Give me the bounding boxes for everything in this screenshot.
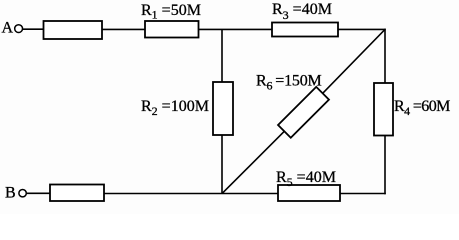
wire diagonal upper (R6 to top-right corner) [323, 29, 385, 93]
svg-text:B: B [5, 185, 16, 202]
terminal B [5, 185, 26, 202]
svg-text:A: A [2, 20, 14, 37]
svg-text:R1 =50M: R1 =50M [141, 2, 201, 22]
wire R4 down to bottom wire [384, 136, 386, 195]
svg-text:R4 =60M: R4 =60M [394, 98, 450, 118]
resistor R3 [272, 23, 338, 37]
resistor R4 [374, 83, 393, 136]
wire B to bottom-left resistor [27, 192, 50, 194]
wire top-right corner down to R4 [384, 29, 386, 83]
resistor R5 [278, 185, 340, 201]
terminal A [2, 20, 23, 37]
wire to R5 (through bottom junction) [104, 193, 278, 195]
wire top junction down to R2 [221, 29, 223, 82]
svg-text:R2 =100M: R2 =100M [141, 98, 209, 118]
wire R1 to R3 (through top junction) [199, 28, 273, 30]
wire R3 to top-right corner [338, 28, 386, 30]
wire R5 to bottom-right corner [340, 193, 386, 195]
resistor R1 [145, 21, 199, 38]
resistor R6 (diagonal) [278, 87, 329, 138]
wire R2 down to bottom junction [221, 135, 223, 194]
resistor (unlabeled, bottom-left) [50, 185, 104, 202]
resistor (unlabeled, top-left) [44, 21, 103, 39]
wire diagonal lower (bottom junction to R6) [222, 131, 284, 193]
wire A to top-left resistor [23, 28, 44, 30]
svg-text:R3 =40M: R3 =40M [272, 1, 332, 22]
resistor R2 [213, 82, 233, 135]
svg-text:R6 =150M: R6 =150M [256, 73, 322, 93]
wire to R1 [102, 28, 145, 30]
